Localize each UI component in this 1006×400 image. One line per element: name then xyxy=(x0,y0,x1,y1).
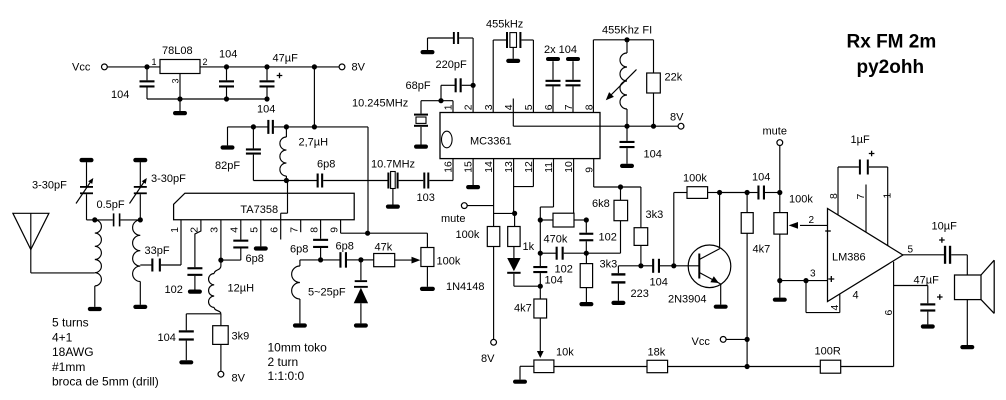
resistor 100k mute pullup xyxy=(487,227,500,247)
capacitor 6p8 to filter xyxy=(286,180,317,182)
wire bottom rail xyxy=(147,98,267,100)
wire wiper to pin2 xyxy=(800,224,828,226)
inductor secondary coil xyxy=(133,220,141,282)
svg-text:1k: 1k xyxy=(523,241,535,253)
svg-text:1: 1 xyxy=(152,57,157,67)
node 8V osc terminal xyxy=(218,371,224,377)
diode 1N4148 xyxy=(513,247,515,259)
op-amp U3 LM386 xyxy=(828,209,903,302)
wire 8V rail drop xyxy=(313,67,315,127)
resistor 47k xyxy=(361,259,374,261)
capacitor trimmer 3-30pF 2 xyxy=(134,186,147,188)
node 8V output terminal xyxy=(339,64,345,70)
svg-text:455Khz FI: 455Khz FI xyxy=(602,25,652,37)
capacitor 104 input bypass xyxy=(146,67,148,80)
svg-text:6p8: 6p8 xyxy=(246,253,264,265)
svg-text:9: 9 xyxy=(329,227,340,233)
resistor 22k xyxy=(653,40,655,73)
svg-text:6: 6 xyxy=(270,227,281,233)
wire pin1 xyxy=(180,220,182,265)
svg-text:3: 3 xyxy=(810,269,816,280)
capacitor 6p8 pin8 xyxy=(320,220,322,239)
svg-text:16: 16 xyxy=(444,161,455,173)
svg-text:2x 104: 2x 104 xyxy=(544,44,577,56)
capacitor 104 node xyxy=(539,253,541,266)
svg-text:4: 4 xyxy=(830,305,841,311)
svg-text:3: 3 xyxy=(484,104,495,110)
svg-text:2 turn: 2 turn xyxy=(268,355,299,369)
svg-text:Vcc: Vcc xyxy=(72,62,91,74)
resistor 100k feedback xyxy=(687,187,708,199)
svg-text:455kHz: 455kHz xyxy=(486,19,523,31)
svg-text:py2ohh: py2ohh xyxy=(857,57,925,78)
svg-text:47µF: 47µF xyxy=(914,275,940,287)
svg-text:68pF: 68pF xyxy=(406,80,431,92)
svg-text:6p8: 6p8 xyxy=(317,159,335,171)
wire 47k wiper arrow xyxy=(395,259,413,261)
ground emitter xyxy=(714,305,728,309)
svg-text:100R: 100R xyxy=(815,346,841,358)
svg-text:2N3904: 2N3904 xyxy=(668,294,707,306)
node Vcc input terminal xyxy=(102,64,108,70)
svg-text:10.7MHz: 10.7MHz xyxy=(371,159,415,171)
wire pin3 junction xyxy=(220,220,222,260)
capacitor 47uF supply xyxy=(894,285,928,287)
svg-text:7: 7 xyxy=(290,227,301,233)
svg-text:104: 104 xyxy=(219,49,237,61)
svg-text:4k7: 4k7 xyxy=(753,244,771,256)
wire bottom supply rail xyxy=(668,366,821,368)
wire diode to node xyxy=(514,285,540,287)
ground regulator xyxy=(179,74,181,112)
svg-text:5 turns: 5 turns xyxy=(52,316,89,330)
wire pin6 supply xyxy=(893,262,895,367)
svg-text:1: 1 xyxy=(444,104,455,110)
capacitor 1uF bypass xyxy=(837,167,839,215)
svg-text:8: 8 xyxy=(309,227,320,233)
capacitor 47uF electrolytic xyxy=(266,67,268,80)
svg-text:470k: 470k xyxy=(544,234,568,246)
wire pin9 route xyxy=(593,159,595,187)
wire junction to 1k xyxy=(494,212,515,214)
svg-text:4: 4 xyxy=(853,290,859,302)
svg-text:7: 7 xyxy=(856,194,867,200)
ground 10k pot xyxy=(520,365,534,367)
capacitor 104 base coupling xyxy=(641,265,653,267)
capacitor 102 series audio xyxy=(540,252,556,254)
svg-text:3k3: 3k3 xyxy=(600,259,618,271)
resistor 470k xyxy=(540,219,553,221)
svg-text:3-30pF: 3-30pF xyxy=(151,173,186,185)
speaker xyxy=(966,255,968,275)
svg-text:1:1:0:0: 1:1:0:0 xyxy=(268,369,305,383)
svg-text:78L08: 78L08 xyxy=(162,45,193,57)
capacitor 104 output bypass xyxy=(226,67,228,80)
svg-text:104: 104 xyxy=(257,104,275,116)
inductor antenna coil 5 turns xyxy=(95,220,102,286)
svg-text:100k: 100k xyxy=(789,194,813,206)
node mute terminal xyxy=(461,203,467,209)
capacitor 102 pin10 xyxy=(585,220,587,233)
svg-text:6p8: 6p8 xyxy=(336,241,354,253)
svg-text:104: 104 xyxy=(752,172,770,184)
svg-text:47µF: 47µF xyxy=(273,53,299,65)
node Vcc terminal 2 xyxy=(720,337,726,343)
wire pin10 riser xyxy=(573,159,575,214)
svg-text:3k3: 3k3 xyxy=(646,209,664,221)
capacitor 33pF input xyxy=(140,264,151,266)
wire pin9 route xyxy=(340,220,342,233)
svg-text:8V: 8V xyxy=(670,112,684,124)
svg-text:mute: mute xyxy=(441,213,465,225)
resistor 4k7 to Vcc xyxy=(741,213,753,234)
inductor 12uH xyxy=(220,260,222,266)
svg-text:4+1: 4+1 xyxy=(52,330,73,344)
svg-text:104: 104 xyxy=(111,89,129,101)
svg-text:2,7µH: 2,7µH xyxy=(299,137,329,149)
wire pin 12-13 tie xyxy=(513,159,515,214)
svg-text:8V: 8V xyxy=(352,62,366,74)
svg-text:MC3361: MC3361 xyxy=(470,136,512,148)
svg-text:#1mm: #1mm xyxy=(52,360,85,374)
varactor 5~25pF xyxy=(321,259,340,261)
wire mute to pin14 xyxy=(467,205,493,207)
ground 100k pot xyxy=(779,281,781,298)
svg-text:1N4148: 1N4148 xyxy=(446,281,485,293)
wire osc bias node xyxy=(186,313,221,315)
capacitor 104 osc coupling xyxy=(267,120,269,134)
svg-text:6: 6 xyxy=(544,104,555,110)
resistor 18k xyxy=(647,360,668,372)
svg-text:10.245MHz: 10.245MHz xyxy=(352,98,408,110)
wire osc internal to pin6 xyxy=(287,181,289,214)
ground bar trimmer 2 xyxy=(133,158,147,162)
wire collector rail xyxy=(720,192,748,194)
svg-text:3: 3 xyxy=(171,78,181,83)
capacitor 104 bias xyxy=(185,314,187,331)
wire pin14 riser xyxy=(493,159,495,227)
crystal filter 10.7MHz xyxy=(387,173,389,189)
svg-text:8V: 8V xyxy=(481,353,495,365)
svg-text:3k9: 3k9 xyxy=(232,331,250,343)
svg-text:2: 2 xyxy=(203,57,208,67)
wire tuning arrow xyxy=(609,70,637,98)
resistor 6k8 xyxy=(620,187,622,200)
svg-text:100k: 100k xyxy=(683,173,707,185)
svg-text:4k7: 4k7 xyxy=(514,303,532,315)
inductor 2,7uH xyxy=(285,127,287,137)
antenna xyxy=(13,213,49,249)
svg-text:100k: 100k xyxy=(437,256,461,268)
capacitor 10uF output xyxy=(944,246,946,264)
wire Vcc to regulator xyxy=(107,66,160,68)
capacitor 104 FI decoupling xyxy=(626,126,628,141)
svg-text:8V: 8V xyxy=(232,373,246,385)
wire to MC3361 pin16 xyxy=(452,159,454,181)
svg-text:3-30pF: 3-30pF xyxy=(32,180,67,192)
svg-text:6p8: 6p8 xyxy=(290,244,308,256)
wire pin3 input xyxy=(780,280,828,282)
svg-text:104: 104 xyxy=(158,332,176,344)
wire audio rail to 18k xyxy=(554,366,647,368)
capacitor 6p8 pin4 xyxy=(240,220,242,240)
svg-text:5~25pF: 5~25pF xyxy=(308,287,346,299)
resistor 3k3 series xyxy=(640,187,642,228)
capacitor 104 mute coupling xyxy=(747,192,757,194)
potentiometer 100k LM386 input xyxy=(779,193,781,213)
resistor 3k3 shunt xyxy=(580,264,592,288)
svg-text:4: 4 xyxy=(504,104,515,110)
svg-text:12µH: 12µH xyxy=(228,283,255,295)
wire osc node xyxy=(253,180,286,182)
node 8V mute terminal xyxy=(491,339,497,345)
wire regulator output rail to 8V xyxy=(200,66,342,68)
op-amp U2 MC3361 xyxy=(440,113,600,159)
capacitor 68pF xyxy=(440,85,442,100)
capacitor 102 pin2 xyxy=(195,220,201,267)
regulator 78L08 xyxy=(160,60,200,74)
node mute 2 terminal xyxy=(777,140,783,146)
capacitor 82pF xyxy=(252,127,254,148)
wire top to mixer injection xyxy=(314,126,368,128)
svg-text:6k8: 6k8 xyxy=(592,198,610,210)
svg-text:47k: 47k xyxy=(375,242,393,254)
svg-text:LM386: LM386 xyxy=(832,252,866,264)
capacitor 223 xyxy=(618,265,641,267)
svg-text:6: 6 xyxy=(884,310,895,316)
svg-text:22k: 22k xyxy=(665,72,683,84)
wire pin7 stub xyxy=(300,220,302,232)
svg-text:82pF: 82pF xyxy=(215,160,240,172)
ground 82pF side xyxy=(221,145,235,149)
svg-text:8: 8 xyxy=(584,104,595,110)
potentiometer 100k squelch xyxy=(426,233,428,247)
resistor 4k7 to volume xyxy=(539,286,541,299)
wire pin11 route xyxy=(553,159,555,207)
svg-text:Vcc: Vcc xyxy=(692,336,711,348)
wire pin5 output xyxy=(903,254,944,256)
ground bar trimmer 1 xyxy=(80,158,94,162)
svg-text:104: 104 xyxy=(545,275,563,287)
potentiometer 10k volume xyxy=(534,360,554,373)
capacitor 103 xyxy=(399,180,424,182)
node 8V at MC3361 xyxy=(678,123,684,129)
svg-text:18AWG: 18AWG xyxy=(52,345,94,359)
wire to 104 coupling xyxy=(228,126,269,128)
svg-text:2: 2 xyxy=(464,104,475,110)
svg-text:Rx FM 2m: Rx FM 2m xyxy=(847,32,937,53)
resistor 1k xyxy=(508,227,520,247)
svg-text:TA7358: TA7358 xyxy=(240,204,278,216)
svg-text:8: 8 xyxy=(829,193,840,199)
svg-text:1: 1 xyxy=(883,193,894,199)
wire crystal to pin1 xyxy=(421,100,453,102)
svg-text:103: 103 xyxy=(417,192,435,204)
svg-text:1: 1 xyxy=(170,227,181,233)
wire node down xyxy=(539,220,541,253)
svg-text:1µF: 1µF xyxy=(851,134,870,146)
resistor 3k9 xyxy=(213,326,229,345)
svg-text:7: 7 xyxy=(564,104,575,110)
svg-text:104: 104 xyxy=(644,149,662,161)
ground 455kHz case xyxy=(512,47,514,58)
capacitor 220pF xyxy=(421,50,435,54)
inductor osc 2 turn xyxy=(300,259,321,261)
svg-text:5: 5 xyxy=(250,227,261,233)
svg-text:33pF: 33pF xyxy=(145,245,170,257)
svg-text:10k: 10k xyxy=(556,347,574,359)
wire pin4 ground loop xyxy=(805,281,807,313)
svg-text:2: 2 xyxy=(809,215,815,226)
wire 100k to 8V xyxy=(493,247,495,340)
svg-text:5: 5 xyxy=(908,245,914,256)
ground pin15 xyxy=(472,159,474,185)
svg-text:100k: 100k xyxy=(456,229,480,241)
svg-text:4: 4 xyxy=(230,227,241,233)
svg-text:18k: 18k xyxy=(648,347,666,359)
capacitor trimmer 3-30pF 1 xyxy=(80,186,93,188)
svg-text:5: 5 xyxy=(524,104,535,110)
svg-text:10mm toko: 10mm toko xyxy=(268,341,328,355)
ground pin5 xyxy=(260,220,262,247)
svg-text:102: 102 xyxy=(599,232,617,244)
capacitor 0.5pF xyxy=(95,219,113,221)
svg-text:220pF: 220pF xyxy=(436,59,467,71)
wire pin2 riser xyxy=(472,38,474,113)
wire pin4 Vcc internal xyxy=(512,99,514,127)
svg-text:mute: mute xyxy=(763,126,787,138)
op-amp U1 TA7358 xyxy=(174,193,355,220)
svg-text:223: 223 xyxy=(631,288,649,300)
svg-text:broca de 5mm (drill): broca de 5mm (drill) xyxy=(52,375,159,389)
svg-text:104: 104 xyxy=(650,277,668,289)
svg-text:10µF: 10µF xyxy=(932,221,958,233)
transistor Q1 2N3904 xyxy=(688,245,731,288)
svg-text:0.5pF: 0.5pF xyxy=(97,199,125,211)
svg-text:3: 3 xyxy=(210,227,221,233)
svg-text:102: 102 xyxy=(165,284,183,296)
resistor 100R xyxy=(820,360,840,373)
